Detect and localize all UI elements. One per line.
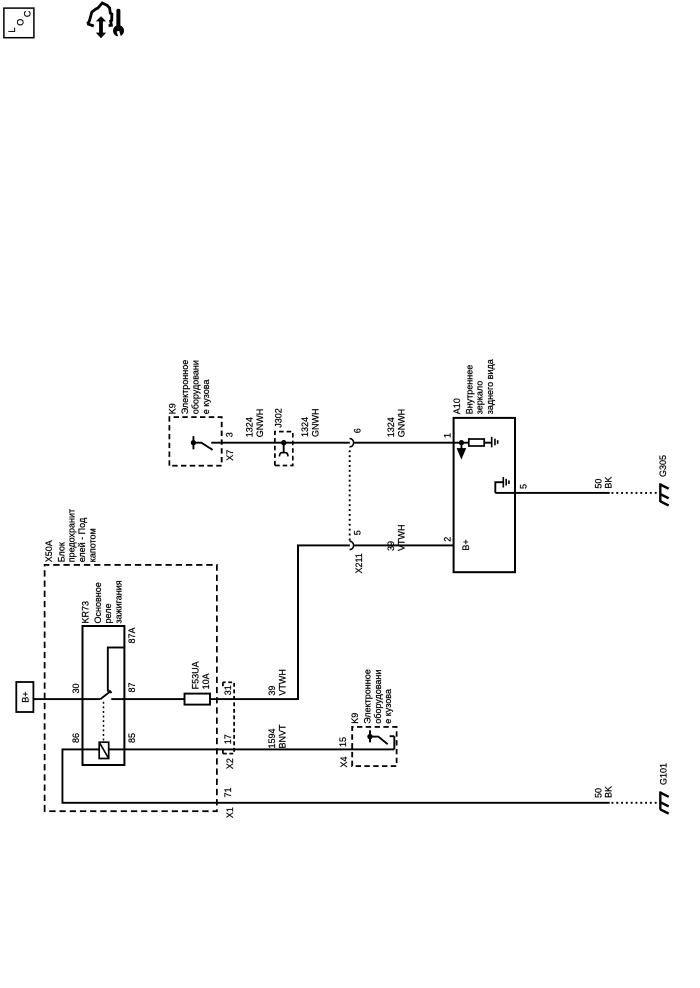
svg-text:е кузова: е кузова bbox=[383, 689, 393, 724]
svg-text:31: 31 bbox=[223, 685, 233, 695]
svg-text:G305: G305 bbox=[658, 455, 668, 477]
svg-text:5: 5 bbox=[518, 484, 528, 489]
svg-text:J302: J302 bbox=[274, 408, 284, 428]
svg-text:G101: G101 bbox=[659, 763, 669, 785]
svg-text:X4: X4 bbox=[339, 756, 349, 767]
svg-text:GNWH: GNWH bbox=[311, 409, 321, 438]
svg-text:капотом: капотом bbox=[87, 528, 97, 562]
svg-text:30: 30 bbox=[71, 683, 81, 693]
svg-text:Блок: Блок bbox=[56, 542, 66, 562]
svg-text:Электронное: Электронное bbox=[180, 360, 190, 415]
svg-text:B+: B+ bbox=[20, 692, 30, 703]
svg-text:71: 71 bbox=[223, 787, 233, 797]
svg-text:87A: 87A bbox=[127, 627, 137, 643]
svg-text:Электронное: Электронное bbox=[363, 669, 373, 724]
svg-text:VTWH: VTWH bbox=[277, 669, 287, 696]
svg-text:зажигания: зажигания bbox=[114, 580, 124, 623]
svg-text:85: 85 bbox=[127, 733, 137, 743]
svg-text:F53UA: F53UA bbox=[191, 661, 201, 689]
svg-text:KR73: KR73 bbox=[80, 601, 90, 624]
svg-text:6: 6 bbox=[353, 428, 363, 433]
svg-text:86: 86 bbox=[71, 733, 81, 743]
svg-text:C: C bbox=[23, 10, 33, 17]
svg-text:3: 3 bbox=[224, 432, 234, 437]
svg-text:предохранит: предохранит bbox=[67, 509, 77, 562]
svg-text:2: 2 bbox=[442, 537, 452, 542]
svg-text:1324: 1324 bbox=[300, 417, 310, 437]
svg-text:1324: 1324 bbox=[386, 417, 396, 437]
svg-text:O: O bbox=[16, 19, 26, 26]
svg-text:X7: X7 bbox=[225, 450, 235, 461]
svg-text:BNVT: BNVT bbox=[277, 724, 287, 749]
svg-text:заднего вида: заднего вида bbox=[485, 359, 495, 414]
svg-text:15: 15 bbox=[338, 737, 348, 747]
svg-text:39: 39 bbox=[386, 541, 396, 551]
svg-text:X2: X2 bbox=[225, 758, 235, 769]
svg-text:17: 17 bbox=[223, 734, 233, 744]
svg-text:K9: K9 bbox=[350, 713, 360, 724]
svg-text:B+: B+ bbox=[461, 539, 471, 550]
svg-text:GNWH: GNWH bbox=[255, 409, 265, 438]
svg-text:GNWH: GNWH bbox=[396, 409, 406, 438]
svg-text:A10: A10 bbox=[452, 398, 462, 414]
svg-text:L: L bbox=[7, 28, 17, 33]
svg-text:е кузова: е кузова bbox=[201, 380, 211, 415]
svg-text:оборудовани: оборудовани bbox=[373, 670, 383, 724]
svg-text:VTWH: VTWH bbox=[396, 525, 406, 552]
svg-text:10A: 10A bbox=[201, 673, 211, 689]
svg-text:BK: BK bbox=[603, 477, 613, 489]
svg-text:39: 39 bbox=[267, 686, 277, 696]
svg-text:оборудовани: оборудовани bbox=[191, 360, 201, 414]
svg-text:BK: BK bbox=[603, 786, 613, 798]
svg-text:зеркало: зеркало bbox=[475, 381, 485, 415]
svg-text:50: 50 bbox=[593, 788, 603, 798]
svg-text:реле: реле bbox=[103, 604, 113, 624]
svg-text:Внутреннее: Внутреннее bbox=[464, 365, 474, 415]
svg-text:X211: X211 bbox=[354, 553, 364, 573]
svg-text:елей - Под: елей - Под bbox=[77, 517, 87, 562]
svg-text:1324: 1324 bbox=[244, 417, 254, 437]
svg-text:50: 50 bbox=[593, 479, 603, 489]
svg-text:5: 5 bbox=[352, 530, 362, 535]
svg-text:K9: K9 bbox=[168, 403, 178, 414]
svg-text:X50A: X50A bbox=[44, 540, 54, 562]
svg-text:1: 1 bbox=[442, 433, 452, 438]
svg-text:87: 87 bbox=[127, 682, 137, 692]
svg-text:X1: X1 bbox=[225, 807, 235, 818]
svg-text:1594: 1594 bbox=[267, 728, 277, 748]
svg-text:Основное: Основное bbox=[93, 582, 103, 623]
